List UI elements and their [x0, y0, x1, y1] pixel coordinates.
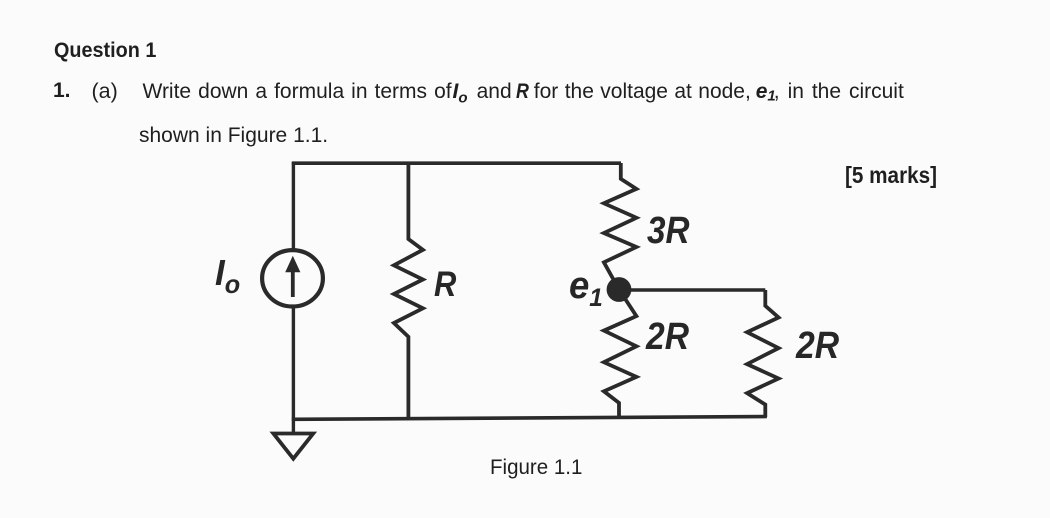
question text line 1 (segments pinned to scan positions)	[143, 81, 452, 102]
wire: left vertical upper (source to top rail)	[292, 162, 295, 250]
resistor 2R (right branch)	[747, 290, 779, 417]
resistor 2R (left, below node e1)	[604, 290, 637, 418]
wire: top rail	[292, 161, 621, 165]
current source Io	[262, 250, 323, 306]
item number "1."	[53, 80, 71, 101]
question text line 2	[139, 125, 328, 146]
wire: bottom rail	[292, 417, 767, 420]
label 2R (right)	[796, 327, 839, 365]
label R	[434, 267, 456, 303]
node e1 junction dot	[607, 277, 632, 302]
label 3R	[647, 212, 690, 250]
wire: node e1 to right branch	[619, 288, 765, 291]
figure caption "Figure 1.1"	[490, 457, 582, 478]
resistor 3R	[604, 163, 637, 290]
heading "Question 1"	[54, 40, 156, 61]
label 2R (left)	[646, 318, 689, 356]
wire: left vertical lower (source to ground)	[292, 307, 295, 434]
label Io (current source)	[215, 255, 240, 297]
marks note "[5 marks]"	[845, 164, 937, 187]
resistor R	[394, 163, 423, 417]
item letter "(a)"	[92, 81, 118, 103]
label e1 (node)	[569, 267, 603, 311]
ground	[273, 434, 313, 459]
